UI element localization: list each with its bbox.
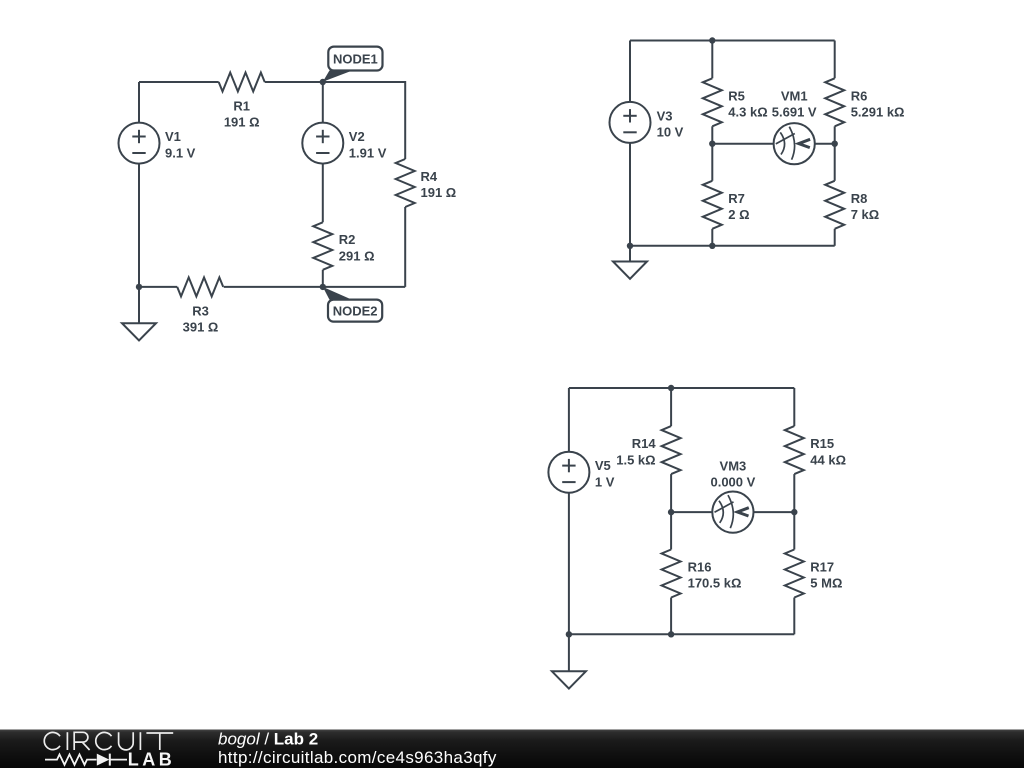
svg-text:391 Ω: 391 Ω [183,320,219,335]
svg-text:V2: V2 [349,129,365,144]
resistor R14 [662,426,681,474]
ground circuit 2 [613,262,647,279]
wire ground stub circuit 3 [568,634,570,671]
node dot mid-left junction circuit 2 [709,141,715,147]
wire V3 top lead [629,41,631,102]
voltage source V2 [302,123,343,164]
svg-text:V5: V5 [595,458,611,473]
svg-text:9.1 V: 9.1 V [165,145,196,160]
resistor R6 [825,78,844,126]
svg-text:44 kΩ: 44 kΩ [810,452,846,467]
svg-text:1.5 kΩ: 1.5 kΩ [616,452,655,467]
svg-text:5.291 kΩ: 5.291 kΩ [851,105,905,120]
resistor R4 [396,159,415,207]
node dot VM3 right junction [791,509,797,515]
resistor R5 [703,78,722,126]
svg-text:bogol / Lab 2: bogol / Lab 2 [218,730,318,749]
ground circuit 1 [122,323,156,340]
resistor R15 [785,426,804,474]
node NODE1 junction dot [320,79,326,85]
wire right branch top lead [834,41,836,79]
svg-text:1 V: 1 V [595,474,615,489]
wire R5 to mid junction [711,126,713,143]
wire right branch top lead circuit 3 [793,388,795,426]
svg-text:191 Ω: 191 Ω [421,185,457,200]
node dot bottom mid circuit 3 [668,631,674,637]
wire ground stub circuit 1 [138,287,140,323]
wire R17 to bottom rail [793,598,795,635]
svg-text:V3: V3 [657,108,673,123]
wire V5 top lead [568,388,570,452]
wire middle branch top lead [711,41,713,79]
svg-text:VM3: VM3 [720,459,747,474]
svg-text:2 Ω: 2 Ω [728,207,749,222]
node dot top mid circuit 2 [709,37,715,43]
svg-text:R14: R14 [632,436,657,451]
wire VM1 junction to R8 [834,144,836,181]
wire bottom-right corner to NODE2 [323,286,405,288]
svg-text:5 MΩ: 5 MΩ [810,576,842,591]
resistor R1 [219,73,265,92]
svg-text:V1: V1 [165,129,181,144]
wire V5 bottom lead [568,493,570,635]
node dot bottom left circuit 3 [566,631,572,637]
svg-text:170.5 kΩ: 170.5 kΩ [688,576,742,591]
svg-text:VM1: VM1 [781,88,808,103]
voltage source V3 [610,102,651,143]
voltmeter VM1 [774,123,815,164]
node dot VM1 right junction [832,141,838,147]
wire R2 to NODE2 [322,270,324,287]
svg-text:291 Ω: 291 Ω [339,248,375,263]
svg-text:NODE2: NODE2 [333,303,378,318]
svg-text:0.000 V: 0.000 V [710,475,755,490]
svg-text:NODE1: NODE1 [333,51,378,66]
wire top rail circuit 2 [630,40,835,42]
svg-text:R16: R16 [688,560,712,575]
wire R7 to bottom rail [711,229,713,246]
wire NODE1 to top-right corner [323,81,405,83]
node dot bottom mid circuit 2 [709,243,715,249]
svg-text:7 kΩ: 7 kΩ [851,207,880,222]
wire mid junction to VM1 left terminal [712,143,773,145]
svg-text:R17: R17 [810,560,834,575]
wire mid branch top lead circuit 3 [670,388,672,426]
wire mid junction to R7 [711,144,713,181]
CircuitLab logo resistor-diode glyph [45,754,97,764]
wire ground stub circuit 2 [629,246,631,262]
wire VM1 right terminal to right branch [815,143,835,145]
wire top-left from V1 top corner to R1 [139,81,219,83]
wire VM3 right lead [754,511,795,513]
svg-text:R8: R8 [851,191,868,206]
svg-text:R5: R5 [728,88,745,103]
wire top rail circuit 3 [569,387,794,389]
node dot bottom left circuit 2 [627,243,633,249]
node dot bottom-left circuit 1 [136,284,142,290]
ground circuit 3 [552,671,586,688]
svg-text:R15: R15 [810,436,834,451]
resistor R17 [785,550,804,598]
svg-text:191 Ω: 191 Ω [224,115,260,130]
resistor R16 [662,550,681,598]
svg-text:R7: R7 [728,191,745,206]
wire right branch down to R4 [404,81,406,159]
CircuitLab logo wordmark CIRCUIT (hand drawn thin letters) [44,732,173,750]
resistor R2 [313,222,332,269]
wire R8 to bottom rail [834,229,836,246]
node NODE2 label box [328,300,382,322]
wire R4 to bottom-right corner [404,207,406,287]
wire V1 bottom lead to ground node [138,164,140,287]
wire V2 top lead [322,82,324,123]
voltage source V5 [548,452,589,493]
wire bottom rail circuit 3 [569,633,794,635]
wire V3 bottom lead [629,143,631,246]
svg-text:R2: R2 [339,232,356,247]
svg-text:LAB: LAB [128,750,176,768]
node NODE1 callout wedge [323,70,352,81]
svg-text:R4: R4 [421,169,438,184]
node dot VM3 left junction [668,509,674,515]
node NODE2 junction dot [320,284,326,290]
wire R15 to VM3 right junction [793,474,795,512]
svg-text:4.3 kΩ: 4.3 kΩ [728,105,767,120]
svg-text:R6: R6 [851,88,868,103]
svg-text:http://circuitlab.com/ce4s963h: http://circuitlab.com/ce4s963ha3qfy [218,748,497,767]
voltmeter VM3 [712,491,753,532]
wire R16 to bottom rail [670,598,672,635]
node dot top mid circuit 3 [668,385,674,391]
svg-text:10 V: 10 V [657,125,684,140]
svg-text:R1: R1 [233,99,250,114]
footer background [0,730,1024,768]
wire NODE2 to R3 [224,286,323,288]
svg-text:R3: R3 [192,303,209,318]
svg-text:5.691 V: 5.691 V [772,105,817,120]
wire R14 to VM3 junction [670,474,672,512]
wire VM3 right junction to R17 [793,512,795,549]
resistor R3 [177,277,223,296]
resistor R8 [825,181,844,229]
wire V2 bottom lead to R2 [322,164,324,223]
wire R3 to ground node [139,286,177,288]
wire VM3 junction to R16 [670,512,672,549]
wire R6 to VM1 junction [834,126,836,143]
wire V1 top lead [138,82,140,123]
voltage source V1 [119,123,160,164]
svg-text:1.91 V: 1.91 V [349,145,387,160]
node NODE2 callout wedge [323,287,352,300]
resistor R7 [703,181,722,229]
node NODE1 label box [328,47,382,71]
wire R1 to NODE1 junction [265,81,323,83]
wire bottom rail circuit 2 [630,245,835,247]
wire VM3 left lead [671,511,712,513]
